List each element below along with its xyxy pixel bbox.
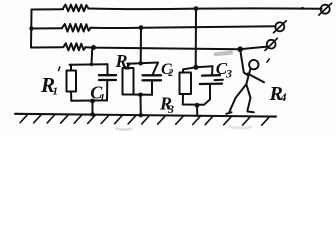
- wire: R2C2 top rail: [128, 63, 158, 64]
- junction dot at R2C2 top rail: [139, 61, 143, 65]
- capacitor C3 bottom lead: [205, 84, 211, 104]
- wire: drain from R1C1 to ground: [92, 101, 94, 114]
- ink blob on line 1: [301, 7, 304, 10]
- wire: drain from R2C2 to ground: [140, 95, 142, 115]
- svg-text:1: 1: [53, 86, 59, 98]
- wire: feed from line 3 down to R1C1 top rail: [91, 48, 94, 65]
- stray ink tick below line-3 terminal: [267, 59, 269, 62]
- label R4: [269, 83, 287, 105]
- person R4: right foot: [248, 111, 254, 114]
- wire: drain from R3C3 to ground: [196, 105, 198, 116]
- wire: R3C3 top rail: [183, 66, 213, 69]
- junction dot at R3C3 top rail: [193, 65, 198, 70]
- wire: R1C1 top rail: [70, 63, 108, 66]
- capacitor C2 top plate: [143, 74, 162, 76]
- svg-text:3: 3: [225, 67, 232, 81]
- svg-text:2: 2: [167, 68, 173, 79]
- resistor: zigzag on line 1: [63, 5, 89, 12]
- junction dot at R1C1 bottom rail: [90, 99, 95, 104]
- junction dot on line 3 (feed to R1C1 group): [91, 45, 96, 50]
- person R4: left leg: [230, 84, 247, 111]
- wire: R2C2 bottom rail: [128, 94, 152, 96]
- capacitor C3 top plate: [202, 74, 220, 77]
- wire: line 1 left segment: [32, 8, 64, 10]
- resistor R2 (box): [123, 68, 134, 95]
- wire: R1 top lead: [70, 65, 72, 71]
- label C3: [216, 59, 232, 81]
- label C1: [90, 83, 105, 104]
- wire: line 2 right segment: [91, 26, 276, 28]
- wire: line 3 left segment: [31, 46, 62, 48]
- capacitor C1 bottom lead: [106, 80, 108, 101]
- ground hatching: [20, 115, 269, 126]
- label R1: [40, 73, 58, 98]
- ink smudge above C3 label: [216, 53, 232, 55]
- label C2: [161, 61, 173, 79]
- person R4: left foot: [226, 112, 231, 114]
- stray ink tick near R1 box: [59, 67, 60, 71]
- resistor: zigzag on line 2: [62, 24, 91, 32]
- svg-text:2: 2: [124, 60, 131, 72]
- stray double-stroke at C3 bottom plate: [215, 79, 224, 81]
- terminal circle line 2: [275, 22, 284, 31]
- terminal slash line 3: [265, 38, 277, 50]
- capacitor C2 top lead: [152, 63, 158, 76]
- terminal slash line 1: [319, 3, 332, 15]
- wire: line 3 right segment: [85, 47, 267, 50]
- wire: R3 bottom lead: [182, 94, 184, 105]
- capacitor C3 top lead: [211, 66, 214, 75]
- wire: R3C3 bottom rail: [183, 104, 204, 106]
- resistor: zigzag on line 3: [63, 43, 85, 50]
- person R4: right arm: [248, 74, 264, 83]
- ground line: [15, 114, 276, 117]
- wire: R1 bottom lead: [70, 92, 72, 101]
- label R3: [159, 94, 174, 117]
- capacitor C1 top lead: [107, 64, 109, 75]
- junction dot at R2C2 bottom rail: [138, 93, 143, 98]
- terminal circle line 1: [321, 5, 330, 14]
- label R2: [115, 51, 132, 72]
- wire: left vertical bus: [30, 10, 33, 48]
- capacitor C1 bottom plate: [99, 79, 116, 81]
- svg-text:3: 3: [167, 102, 174, 116]
- person R4: body: [246, 69, 250, 84]
- person R4: head: [249, 60, 258, 69]
- resistor R1 (box): [67, 71, 77, 92]
- wire: R3 top lead: [182, 69, 184, 72]
- resistor R3 (box): [180, 73, 192, 95]
- person R4: right leg: [246, 84, 250, 110]
- wire: R2 top lead: [127, 64, 129, 68]
- wire: line 1 right segment: [88, 7, 321, 10]
- faint smudge below ground near figure: [229, 127, 251, 128]
- svg-text:1: 1: [100, 92, 106, 104]
- capacitor C2 bottom lead: [151, 80, 153, 95]
- junction dot at R3C3 bottom rail: [195, 103, 200, 108]
- capacitor C2 bottom plate: [143, 79, 162, 81]
- svg-text:4: 4: [280, 90, 287, 104]
- junction dot on line 3 (hand of R4 figure): [237, 46, 243, 52]
- junction dot on line 2 (feed to R2C2 group): [139, 25, 144, 30]
- terminal circle line 3: [267, 40, 276, 49]
- junction dot at R1C1 top rail: [90, 63, 94, 67]
- capacitor C3 bottom plate: [200, 82, 222, 85]
- capacitor C1 top plate: [99, 74, 116, 76]
- wire: feed from line 2 down to R2C2 top rail (crosses line 3): [140, 28, 142, 64]
- wire: feed from line 1 down to R3C3 top rail (crosses lines 2,3): [195, 9, 197, 68]
- terminal slash line 2: [274, 21, 287, 33]
- wire: R1C1 bottom rail: [71, 99, 107, 101]
- junction dot at ground (group 1): [90, 112, 94, 116]
- person R4: arm to wire: [240, 50, 248, 76]
- junction dot on bus at middle line: [29, 26, 33, 30]
- faint smudge below ground left-middle: [116, 129, 131, 130]
- junction dot at ground (group 2): [139, 113, 143, 117]
- junction dot on line 1 (feed to R3C3 group): [194, 6, 199, 11]
- wire: line 2 left segment: [31, 27, 62, 29]
